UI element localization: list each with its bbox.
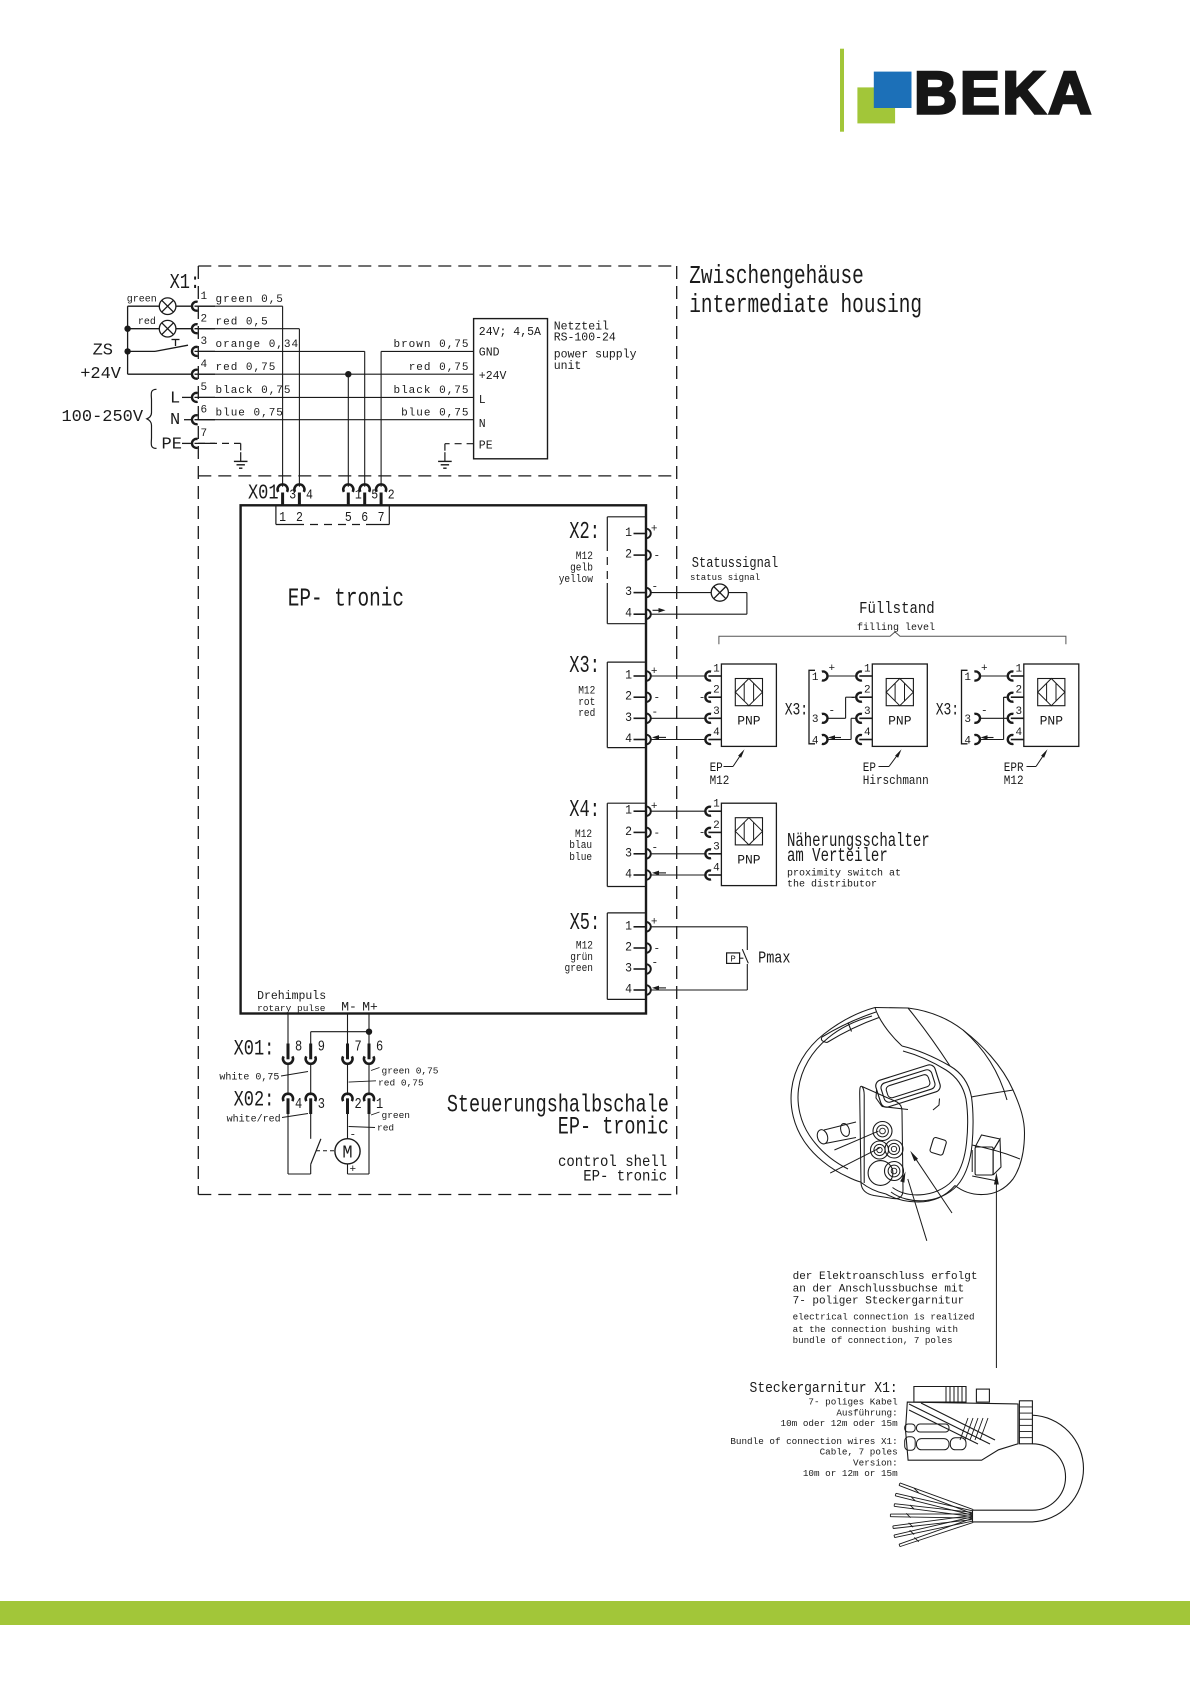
- svg-text:7: 7: [378, 509, 385, 525]
- svg-text:1: 1: [625, 525, 632, 540]
- svg-text:2: 2: [355, 1096, 362, 1112]
- svg-text:-: -: [654, 693, 661, 705]
- svg-text:M-: M-: [341, 1000, 357, 1015]
- svg-text:red 0,75: red 0,75: [409, 362, 470, 374]
- svg-text:-: -: [981, 705, 988, 717]
- svg-text:2: 2: [201, 313, 208, 325]
- svg-text:1: 1: [964, 672, 971, 684]
- svg-text:X4:: X4:: [569, 797, 600, 823]
- svg-text:bundle of connection, 7 poles: bundle of connection, 7 poles: [793, 1335, 953, 1346]
- svg-text:red: red: [138, 316, 156, 328]
- svg-text:PNP: PNP: [737, 853, 761, 868]
- svg-text:X02:: X02:: [234, 1087, 275, 1112]
- svg-text:24V; 4,5A: 24V; 4,5A: [479, 326, 541, 339]
- svg-text:rotary pulse: rotary pulse: [257, 1003, 326, 1014]
- svg-text:M12: M12: [710, 773, 730, 788]
- svg-text:4: 4: [625, 731, 632, 746]
- svg-text:1: 1: [625, 919, 632, 934]
- svg-text:green 0,75: green 0,75: [382, 1065, 439, 1076]
- svg-text:red: red: [578, 707, 595, 720]
- svg-text:Statussignal: Statussignal: [692, 555, 778, 571]
- svg-text:4: 4: [201, 359, 208, 371]
- svg-text:red: red: [377, 1123, 394, 1134]
- svg-text:green 0,5: green 0,5: [216, 294, 284, 306]
- svg-text:X2:: X2:: [569, 520, 600, 546]
- svg-text:Version:: Version:: [853, 1457, 898, 1468]
- svg-text:orange 0,34: orange 0,34: [216, 339, 300, 351]
- svg-text:1: 1: [713, 799, 720, 811]
- svg-text:2: 2: [1016, 685, 1023, 697]
- svg-text:X3:: X3:: [569, 654, 600, 680]
- svg-text:Steckergarnitur X1:: Steckergarnitur X1:: [750, 1380, 898, 1397]
- svg-text:PE: PE: [162, 436, 182, 455]
- svg-text:L: L: [170, 389, 180, 408]
- svg-text:Hirschmann: Hirschmann: [863, 773, 929, 788]
- svg-text:3: 3: [1016, 706, 1023, 718]
- svg-text:PE: PE: [479, 439, 493, 452]
- svg-text:2: 2: [388, 487, 395, 503]
- svg-text:X3:: X3:: [936, 700, 959, 720]
- svg-text:Bundle of connection wires X1:: Bundle of connection wires X1:: [730, 1436, 897, 1447]
- svg-text:black 0,75: black 0,75: [393, 385, 469, 397]
- svg-text:-: -: [652, 958, 659, 970]
- svg-text:P: P: [730, 955, 735, 965]
- svg-text:PNP: PNP: [1040, 714, 1064, 729]
- svg-text:unit: unit: [554, 360, 582, 373]
- svg-text:blue: blue: [569, 851, 592, 864]
- svg-text:PNP: PNP: [737, 714, 761, 729]
- svg-text:6: 6: [361, 509, 368, 525]
- svg-text:blue 0,75: blue 0,75: [401, 407, 469, 419]
- svg-text:Cable, 7 poles: Cable, 7 poles: [820, 1447, 898, 1458]
- svg-text:EP- tronic: EP- tronic: [583, 1166, 667, 1185]
- svg-text:EP- tronic: EP- tronic: [558, 1113, 669, 1141]
- svg-text:3: 3: [625, 961, 632, 976]
- svg-text:+: +: [651, 524, 658, 536]
- svg-text:proximity switch at: proximity switch at: [787, 868, 901, 880]
- svg-text:red 0,5: red 0,5: [216, 316, 269, 328]
- svg-text:2: 2: [296, 509, 303, 525]
- svg-text:3: 3: [812, 714, 819, 726]
- svg-text:4: 4: [713, 863, 720, 875]
- svg-text:blue 0,75: blue 0,75: [216, 407, 284, 419]
- svg-text:-: -: [654, 944, 661, 956]
- svg-text:white/red: white/red: [227, 1114, 281, 1126]
- svg-text:2: 2: [864, 685, 871, 697]
- svg-text:2: 2: [625, 689, 632, 704]
- svg-text:7: 7: [201, 428, 208, 440]
- svg-text:X3:: X3:: [785, 700, 808, 720]
- svg-text:the distributor: the distributor: [787, 879, 877, 891]
- svg-text:1: 1: [201, 291, 208, 303]
- svg-text:Pmax: Pmax: [758, 951, 790, 968]
- svg-text:X1:: X1:: [170, 270, 201, 294]
- svg-text:3: 3: [713, 706, 720, 718]
- svg-text:white 0,75: white 0,75: [219, 1072, 279, 1084]
- svg-text:GND: GND: [479, 346, 500, 359]
- svg-text:am Verteiler: am Verteiler: [787, 846, 888, 868]
- svg-text:3: 3: [964, 714, 971, 726]
- svg-text:at the connection bushing with: at the connection bushing with: [793, 1324, 958, 1335]
- svg-text:2: 2: [625, 547, 632, 562]
- svg-text:+24V: +24V: [80, 365, 122, 384]
- svg-text:X01: X01: [248, 481, 279, 505]
- svg-text:der Elektroanschluss erfolgt: der Elektroanschluss erfolgt: [793, 1271, 978, 1283]
- svg-text:EP- tronic: EP- tronic: [288, 584, 404, 614]
- svg-text:X5:: X5:: [570, 911, 601, 937]
- svg-text:6: 6: [201, 404, 208, 416]
- svg-text:3: 3: [864, 706, 871, 718]
- svg-text:9: 9: [318, 1039, 325, 1055]
- svg-text:green: green: [382, 1110, 411, 1121]
- svg-text:3: 3: [625, 846, 632, 861]
- svg-text:Drehimpuls: Drehimpuls: [257, 990, 326, 1003]
- svg-text:4: 4: [625, 606, 632, 621]
- svg-text:1: 1: [713, 664, 720, 676]
- svg-text:-: -: [652, 843, 659, 855]
- svg-text:5: 5: [345, 509, 352, 525]
- svg-text:+: +: [981, 663, 988, 675]
- svg-text:PNP: PNP: [888, 714, 912, 729]
- svg-text:-: -: [829, 705, 836, 717]
- svg-text:red 0,75: red 0,75: [216, 362, 277, 374]
- svg-text:4: 4: [864, 727, 871, 739]
- svg-text:1: 1: [279, 509, 286, 525]
- svg-text:100-250V: 100-250V: [61, 408, 143, 427]
- svg-text:3: 3: [625, 585, 632, 600]
- svg-text:-: -: [850, 693, 857, 705]
- svg-text:7: 7: [355, 1039, 362, 1055]
- svg-text:2: 2: [625, 940, 632, 955]
- svg-text:3: 3: [713, 841, 720, 853]
- svg-text:BEKA: BEKA: [914, 60, 1094, 127]
- svg-text:black 0,75: black 0,75: [216, 385, 292, 397]
- svg-text:10m or 12m or 15m: 10m or 12m or 15m: [803, 1468, 898, 1479]
- svg-text:-: -: [654, 828, 661, 840]
- svg-text:brown 0,75: brown 0,75: [393, 339, 469, 351]
- svg-text:1: 1: [625, 668, 632, 683]
- svg-text:+24V: +24V: [479, 370, 507, 383]
- svg-text:M: M: [342, 1143, 352, 1164]
- svg-text:3: 3: [318, 1096, 325, 1112]
- svg-text:-: -: [654, 551, 661, 563]
- svg-text:7- poliges Kabel: 7- poliges Kabel: [808, 1397, 898, 1408]
- svg-text:6: 6: [376, 1039, 383, 1055]
- svg-text:-: -: [1001, 693, 1008, 705]
- svg-text:4: 4: [713, 727, 720, 739]
- svg-text:4: 4: [306, 487, 313, 503]
- svg-text:-: -: [350, 1129, 357, 1141]
- svg-text:2: 2: [625, 824, 632, 839]
- svg-text:X01:: X01:: [234, 1037, 275, 1062]
- svg-text:2: 2: [713, 820, 720, 832]
- svg-text:green: green: [127, 295, 157, 306]
- svg-text:4: 4: [625, 982, 632, 997]
- svg-text:N: N: [170, 411, 180, 430]
- svg-text:L: L: [479, 394, 486, 407]
- svg-text:yellow: yellow: [559, 573, 594, 586]
- svg-text:4: 4: [1016, 727, 1023, 739]
- svg-text:+: +: [829, 663, 836, 675]
- svg-text:Zwischengehäuse: Zwischengehäuse: [689, 262, 864, 291]
- svg-text:-: -: [699, 693, 706, 705]
- svg-text:1: 1: [625, 803, 632, 818]
- svg-text:2: 2: [713, 685, 720, 697]
- svg-text:N: N: [479, 418, 486, 431]
- svg-text:Ausführung:: Ausführung:: [836, 1408, 897, 1419]
- svg-text:4: 4: [625, 867, 632, 882]
- svg-text:-: -: [652, 707, 659, 719]
- svg-text:7- poliger Steckergarnitur: 7- poliger Steckergarnitur: [793, 1296, 965, 1308]
- svg-text:10m oder 12m oder 15m: 10m oder 12m oder 15m: [781, 1418, 899, 1429]
- svg-text:Füllstand: Füllstand: [859, 599, 935, 619]
- svg-text:green: green: [565, 962, 593, 975]
- svg-text:3: 3: [201, 336, 208, 348]
- svg-text:electrical connection is reali: electrical connection is realized: [793, 1312, 975, 1323]
- svg-text:8: 8: [295, 1039, 302, 1055]
- svg-text:status signal: status signal: [690, 573, 760, 583]
- svg-text:an der Anschlussbuchse mit: an der Anschlussbuchse mit: [793, 1284, 965, 1296]
- svg-text:-: -: [699, 828, 706, 840]
- svg-text:3: 3: [625, 710, 632, 725]
- svg-text:1: 1: [1016, 664, 1023, 676]
- svg-text:4: 4: [964, 735, 971, 747]
- svg-text:RS-100-24: RS-100-24: [554, 332, 616, 345]
- svg-text:5: 5: [201, 382, 208, 394]
- svg-text:M12: M12: [1004, 773, 1024, 788]
- svg-text:M+: M+: [362, 1000, 378, 1015]
- svg-text:intermediate housing: intermediate housing: [689, 291, 922, 320]
- svg-text:4: 4: [812, 735, 819, 747]
- svg-text:-: -: [652, 582, 659, 594]
- svg-text:1: 1: [812, 672, 819, 684]
- svg-text:ZS: ZS: [93, 342, 113, 361]
- svg-text:red 0,75: red 0,75: [378, 1077, 424, 1088]
- svg-text:4: 4: [295, 1096, 302, 1112]
- svg-text:1: 1: [864, 664, 871, 676]
